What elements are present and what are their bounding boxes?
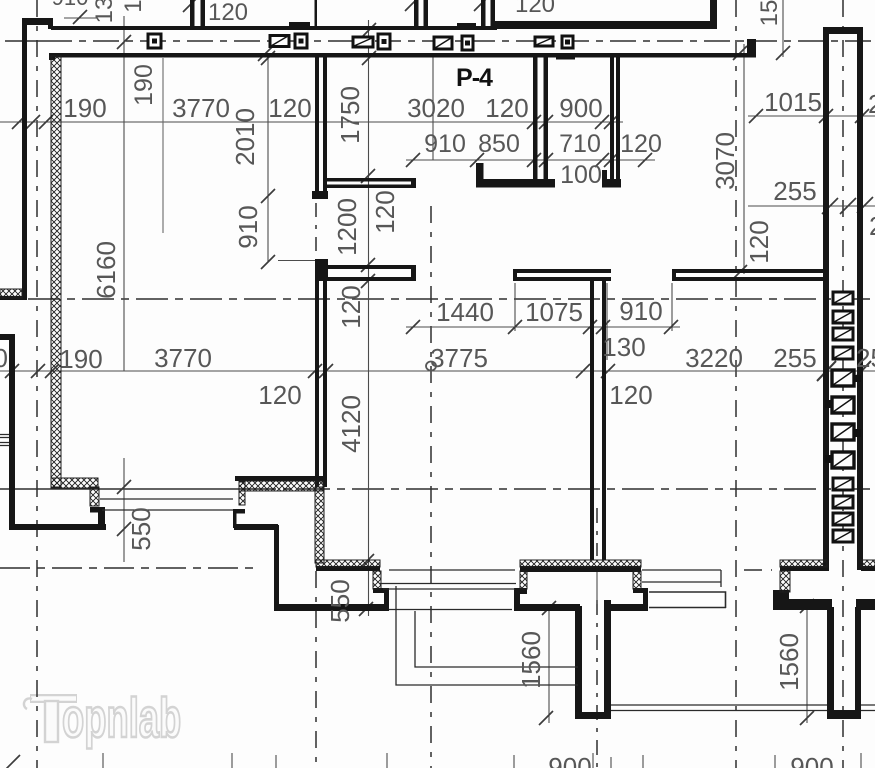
svg-text:120: 120 <box>336 285 366 328</box>
dim vertical x=549 (1560 left) <box>548 606 550 723</box>
svg-text:255: 255 <box>856 343 875 373</box>
ticks 1560 left <box>539 601 556 725</box>
ticks on x=268 chain <box>261 51 275 269</box>
wall west outer upper <box>22 18 27 300</box>
slab step outline right of bay2 <box>649 592 726 608</box>
svg-text:3020: 3020 <box>407 93 465 123</box>
svg-text:3770: 3770 <box>154 343 212 373</box>
svg-text:190: 190 <box>130 64 158 106</box>
svg-text:900: 900 <box>559 93 602 123</box>
bay2 window inner face <box>520 566 641 572</box>
ticks on y=371 chain <box>5 364 615 378</box>
wall W2 horizontal y=178..188 <box>323 178 416 182</box>
svg-text:25: 25 <box>868 89 875 119</box>
window symbol pair 5: square <box>562 36 573 48</box>
east column ladder: big squares <box>832 370 854 468</box>
tick x=783 <box>776 46 790 60</box>
east column ladder: small squares group 2 <box>833 478 853 542</box>
bay3 window inner face <box>780 566 827 571</box>
wall W3 x=315..327 mid <box>315 259 319 487</box>
axis vertical x=736 <box>735 0 737 768</box>
wall W5 horizontal y=269..281 <box>513 269 611 273</box>
bay2 bottom wall left <box>515 604 580 611</box>
svg-text:1200: 1200 <box>332 198 362 256</box>
axis vertical x=843 <box>842 0 844 768</box>
ticks on y=206 255 <box>822 197 873 214</box>
wall west hatched stub at left edge y=289 <box>0 296 22 300</box>
dim line 1015 y=116 <box>748 115 875 117</box>
axis vertical x=597 <box>596 508 598 768</box>
wall W10 foot <box>602 179 621 188</box>
dim line 255 y=206 <box>748 205 875 207</box>
hatched wall W3 lower <box>315 487 324 563</box>
hatched return bay3 <box>780 571 790 592</box>
wall vertical to top edge x=713 <box>710 0 717 29</box>
east column left line <box>823 30 829 571</box>
lintel bar below band near x=565 <box>556 56 575 60</box>
bay1 left upper step <box>233 509 245 514</box>
axis vertical x=37 <box>36 0 38 768</box>
pier P2 left leg <box>827 607 834 719</box>
window symbol pair 4: square <box>462 36 473 50</box>
svg-text:3220: 3220 <box>685 343 743 373</box>
svg-text:255: 255 <box>773 343 816 373</box>
window symbol pair 4: rect <box>434 37 452 49</box>
bay2 left steps <box>514 588 527 594</box>
dim chain line y=327 <box>406 326 680 328</box>
dim connector y=260 <box>278 260 318 262</box>
extension vertical x=433 <box>432 57 434 160</box>
svg-text:900: 900 <box>548 752 591 768</box>
small o mark near axis x431 <box>426 362 436 371</box>
dim vertical x=807 (1560 right) <box>806 604 808 723</box>
bay2 right steps <box>633 588 648 593</box>
svg-text:1560: 1560 <box>516 631 546 689</box>
extension vertical x=515 <box>514 283 516 331</box>
svg-text:910: 910 <box>424 130 466 158</box>
dim chain line y=371 full width <box>0 370 875 372</box>
window symbol small square 1 <box>148 34 161 48</box>
wall north band top line thick part <box>495 21 717 29</box>
ticks on y=327 chain <box>406 320 678 334</box>
svg-text:710: 710 <box>559 130 601 158</box>
east column ladder tabs <box>825 375 861 463</box>
svg-text:3775: 3775 <box>430 343 488 373</box>
axis horizontal y=489 <box>0 488 244 490</box>
ticks on x=368 chain <box>359 23 376 616</box>
bay2 bottom wall right <box>604 604 648 611</box>
hatched west wall bottom L <box>51 478 98 488</box>
thin outlines <box>0 435 875 711</box>
dim vertical x=124 <box>123 16 125 371</box>
wall W6 x=590..606 <box>590 277 594 560</box>
axis horizontal y=299 <box>28 298 875 300</box>
porch step lines <box>100 499 233 510</box>
wall interior W1 x=315..327 upper <box>315 57 319 199</box>
bay1 left wall <box>274 525 279 611</box>
svg-text:120: 120 <box>515 0 555 18</box>
left wall window stub lines <box>0 435 9 446</box>
lintel bar above band near x=300 <box>289 22 310 26</box>
ticks x=744 3070 <box>733 46 747 279</box>
bottom long slab lines <box>611 705 875 711</box>
dim vertical x=744 (3070) <box>743 44 745 274</box>
svg-text:2010: 2010 <box>230 108 260 166</box>
svg-text:1440: 1440 <box>436 297 494 327</box>
extension vertical x=163 <box>162 58 164 233</box>
axis vertical x=431 <box>430 206 432 768</box>
hatched window bay2 <box>520 560 641 567</box>
big ticks on y=371 at east wall <box>817 361 871 381</box>
svg-text:190: 190 <box>0 343 8 373</box>
svg-text:910: 910 <box>52 0 89 10</box>
wall W7 horizontal y=269..281 <box>672 269 827 273</box>
pier P1 right leg <box>604 600 611 719</box>
window symbol pair 5: rect <box>535 37 553 46</box>
pier P2 right leg <box>855 607 861 719</box>
bay1 bottom wall <box>276 604 389 611</box>
svg-text:15: 15 <box>756 0 783 26</box>
ticks on x=124 chain <box>73 10 131 536</box>
balcony outline below bay1-bay2 <box>396 586 578 685</box>
wall W1 foot <box>312 191 328 199</box>
slab lines right of bay2 <box>642 570 721 587</box>
extension vertical x=672 <box>671 283 673 331</box>
svg-text:120: 120 <box>744 220 774 263</box>
svg-text:120: 120 <box>485 93 528 123</box>
axis vertical x=316 upper <box>315 203 317 262</box>
svg-text:130: 130 <box>602 332 645 362</box>
hatched west wall <box>51 56 61 487</box>
hatched return bay1 right <box>373 571 381 589</box>
svg-text:4120: 4120 <box>336 395 366 453</box>
wall W8 x=533..548 <box>533 57 538 179</box>
svg-text:opnlab: opnlab <box>62 687 181 750</box>
axis vertical x=316 lower <box>315 571 317 768</box>
svg-text:120: 120 <box>208 0 248 26</box>
room1 south wall west part <box>234 524 278 530</box>
dim chain line y=160 <box>406 159 655 161</box>
wall W8 bracket foot <box>476 179 555 188</box>
window symbol pair 2: square <box>295 34 307 48</box>
dim vertical x=783 (150) <box>782 0 784 57</box>
dim vertical x=124 at 550 <box>123 458 125 562</box>
wall north band top line <box>51 26 497 30</box>
lintel bar above band near x=466 <box>457 23 476 27</box>
hatched stub at left edge <box>0 289 22 298</box>
porch step wall piece <box>90 507 105 513</box>
svg-text:6160: 6160 <box>91 241 121 299</box>
pier P1 bottom <box>575 712 611 719</box>
window symbol pair 2: rect <box>270 36 289 47</box>
slab lines between bay1 and bay2 <box>379 570 516 610</box>
svg-text:1750: 1750 <box>335 86 365 144</box>
bay3 bottom wall right <box>856 599 875 610</box>
svg-text:1560: 1560 <box>774 633 804 691</box>
axis dash segment y=570 between bays <box>744 569 772 571</box>
ticks 1560 right <box>800 599 814 725</box>
window symbol pair 3: rect <box>353 37 373 47</box>
dim chain line y=122 left <box>0 121 623 123</box>
svg-text:190: 190 <box>59 344 102 374</box>
thin wall line above band x=315 <box>315 0 318 26</box>
wall W4 horizontal y=265..281 <box>325 265 416 269</box>
svg-text:100: 100 <box>560 161 602 189</box>
svg-text:910: 910 <box>619 296 662 326</box>
wall stub above band A <box>190 0 195 27</box>
east column ladder: small squares group 1 <box>833 292 853 359</box>
wall top-left notch <box>22 18 53 25</box>
ticks on y=160 chain <box>406 153 652 167</box>
wall junction block at (315,259) <box>315 259 328 281</box>
dim line y=18 top-left <box>64 17 97 19</box>
tick bottom-left <box>6 755 20 768</box>
svg-text:910: 910 <box>233 205 263 248</box>
svg-text:1015: 1015 <box>764 87 822 117</box>
wall west lower corner <box>0 334 14 340</box>
wall stub above band B <box>414 0 419 27</box>
dim vertical x=368 <box>368 20 370 616</box>
svg-text:3770: 3770 <box>172 93 230 123</box>
svg-text:3070: 3070 <box>710 132 740 190</box>
extension vertical x=607 <box>606 283 608 360</box>
hatched window bay1 <box>316 560 380 567</box>
dim vertical x=268 <box>267 56 269 262</box>
tick near socket2 on band <box>258 47 272 61</box>
hatched returns bay2 <box>520 571 527 589</box>
wall stub above band C <box>481 0 486 27</box>
bay3 bottom wall left <box>774 599 832 610</box>
bay3 left steps <box>773 590 789 599</box>
svg-text:13: 13 <box>91 0 118 23</box>
wall W10 x=610..620 <box>610 57 614 179</box>
svg-text:1: 1 <box>120 0 147 13</box>
bay1 right steps <box>384 588 389 611</box>
ticks on y=116 1015 <box>749 109 869 123</box>
watermark Topnlab <box>24 687 181 750</box>
wall southwest bottom <box>9 524 106 530</box>
bottom edge extension stubs <box>103 753 861 768</box>
east column top bar <box>823 27 863 34</box>
svg-text:2: 2 <box>869 211 875 241</box>
extension vertical x=597 below bay2 <box>596 572 598 604</box>
svg-text:1075: 1075 <box>525 297 583 327</box>
svg-text:190: 190 <box>63 93 106 123</box>
svg-text:850: 850 <box>478 130 520 158</box>
svg-text:120: 120 <box>620 130 662 158</box>
svg-text:550: 550 <box>126 507 156 550</box>
svg-text:120: 120 <box>258 380 301 410</box>
hatch areas <box>0 56 875 592</box>
ticks on y=122 chain <box>12 115 618 129</box>
svg-text:120: 120 <box>268 93 311 123</box>
bay1 window inner face <box>316 566 380 571</box>
svg-text:900: 900 <box>790 752 833 768</box>
svg-text:255: 255 <box>773 176 816 206</box>
svg-text:120: 120 <box>609 380 652 410</box>
room1 south wall edge <box>235 476 323 481</box>
hatched band room1 south <box>239 481 323 491</box>
svg-text:550: 550 <box>325 579 355 622</box>
window symbol pair 3: square <box>378 34 390 49</box>
hatched return bay1 left <box>239 482 245 505</box>
axis horizontal y=568 <box>0 567 253 569</box>
wall L-corner right end of band <box>747 39 756 57</box>
svg-text:120: 120 <box>370 190 400 233</box>
pier P2 bottom <box>827 710 861 719</box>
wall north band bottom line <box>49 53 756 58</box>
axis horizontal y=41 <box>5 40 46 42</box>
svg-text:P-4: P-4 <box>456 64 493 92</box>
east column right line <box>857 30 863 570</box>
ticks at top stubs <box>183 0 488 12</box>
pier P1 left leg <box>575 606 582 719</box>
hatched window bay3 <box>780 560 827 567</box>
